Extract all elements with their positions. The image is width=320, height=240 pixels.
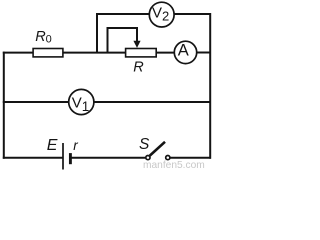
svg-text:r: r: [73, 138, 78, 153]
svg-text:A: A: [178, 42, 189, 60]
svg-text:manfen5.com: manfen5.com: [143, 160, 205, 170]
svg-text:E: E: [47, 137, 58, 154]
svg-text:R: R: [133, 60, 144, 76]
svg-text:S: S: [139, 136, 150, 153]
